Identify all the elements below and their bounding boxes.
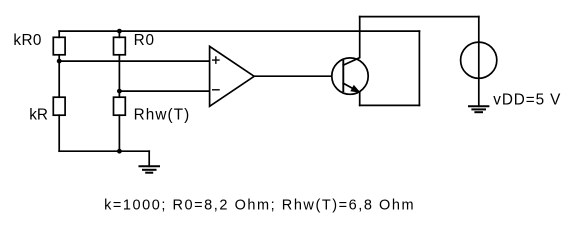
op-amp minus sign: [213, 89, 219, 91]
voltage source internal line: [478, 42, 480, 106]
wire supply vertical: [478, 17, 480, 42]
transistor Q1: [332, 58, 368, 94]
wire Rhw bottom: [118, 115, 120, 151]
node bridge top junction dot: [117, 29, 122, 34]
svg-text:R0: R0: [134, 32, 155, 49]
svg-text:kR0: kR0: [13, 32, 41, 49]
wire op-amp output to base: [254, 75, 343, 77]
wire kR bottom: [58, 115, 60, 151]
wire collector to supply: [360, 16, 479, 18]
transistor collector lead: [343, 17, 359, 66]
ground (vDD): [469, 106, 488, 112]
op-amp U1: [210, 46, 255, 106]
node left bridge mid junction dot: [57, 59, 62, 64]
svg-text:kR: kR: [29, 107, 48, 124]
svg-text:k=1000; R0=8,2 Ohm; Rhw(T)=6,8: k=1000; R0=8,2 Ohm; Rhw(T)=6,8 Ohm: [104, 198, 415, 214]
resistor Rhw(T): [114, 97, 126, 115]
node bottom rail junction dot: [117, 149, 122, 154]
wire ground stub (bridge): [148, 151, 150, 166]
wire top rail (bridge top node): [59, 30, 419, 32]
op-amp plus sign: [213, 57, 219, 63]
voltage source vDD: [461, 42, 497, 78]
wire feedback right vertical: [418, 31, 420, 105]
node right bridge mid junction dot: [117, 89, 122, 94]
svg-text:vDD=5 V: vDD=5 V: [493, 92, 561, 109]
wire bottom rail: [59, 150, 149, 152]
wire kR0 bottom to kR top: [58, 55, 60, 97]
transistor emitter lead: [343, 83, 359, 105]
wire op-amp noninverting input: [59, 60, 209, 62]
svg-text:Rhw(T): Rhw(T): [134, 106, 191, 123]
wire R0 top stub: [118, 31, 120, 37]
wire kR0 top stub: [58, 31, 60, 37]
resistor kR0: [53, 37, 65, 55]
resistor kR: [53, 97, 65, 115]
wire feedback bottom: [360, 104, 420, 106]
resistor R0: [114, 37, 126, 55]
wire R0 bottom to Rhw top: [118, 55, 120, 97]
transistor emitter arrow: [350, 85, 361, 93]
wire op-amp inverting input: [119, 90, 209, 92]
ground (bridge): [140, 166, 160, 172]
transistor base bar: [342, 61, 344, 91]
